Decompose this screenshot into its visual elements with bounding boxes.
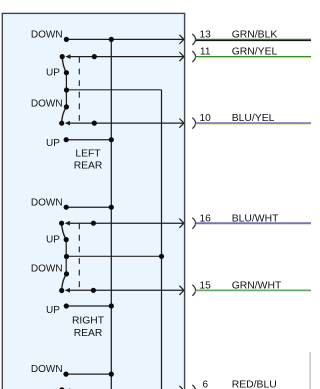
connector socket arc pin 15	[192, 285, 195, 296]
junction dot: right-rear wiper 1 wire x93	[91, 221, 96, 226]
wire: left-rear down contact row to pin 13	[66, 38, 183, 40]
pin 15 arrowhead at connector edge	[179, 286, 184, 295]
contact dot: right-rear wiper pivot 1	[59, 221, 64, 226]
wiper arrow right-rear 2	[65, 288, 70, 293]
svg-text:10: 10	[200, 113, 212, 124]
wire: right-rear middle link tap to bus B	[67, 255, 162, 257]
pin 13 arrowhead at connector edge	[179, 35, 184, 44]
connector socket arc pin 11	[192, 51, 195, 62]
wire: right-rear down contact 1 row to bus A	[66, 206, 111, 208]
wiper arrow left-rear 1	[65, 54, 70, 59]
svg-text:RED/BLU: RED/BLU	[232, 380, 277, 389]
svg-text:13: 13	[200, 30, 212, 41]
contact dot: left-rear DOWN 2	[64, 104, 69, 109]
connector socket arc pin 6 (partial)	[192, 385, 195, 389]
svg-text:DOWN: DOWN	[31, 197, 63, 208]
wire: right-rear middle contact link	[65, 240, 67, 274]
contact dot: right-rear UP 1	[64, 237, 69, 242]
wire GRN/BLK pin 13	[196, 39, 311, 40]
pin 16 arrowhead at connector edge	[179, 219, 184, 228]
svg-text:6: 6	[202, 380, 208, 389]
pin 11 arrowhead at connector edge	[179, 52, 184, 61]
junction dot: right-rear wiper 2 wire x93	[91, 288, 96, 293]
svg-text:16: 16	[200, 213, 212, 224]
wire: left-rear wiper 1 row to pin 11	[70, 56, 184, 58]
power window switch box	[2, 13, 184, 389]
contact dot: bottom wiper pivot (partial at edge)	[59, 387, 64, 389]
contact dot: right-rear DOWN 2	[64, 271, 69, 276]
svg-text:UP: UP	[46, 67, 60, 78]
svg-text:GRN/YEL: GRN/YEL	[232, 47, 278, 58]
svg-text:DOWN: DOWN	[31, 30, 63, 41]
wire GRN/YEL pin 11	[196, 57, 311, 58]
contact dot: right-rear UP 2	[64, 303, 69, 308]
wire: right-rear wiper 2 row to pin 15	[69, 289, 183, 291]
svg-text:UP: UP	[46, 305, 60, 316]
wire: bus A vertical	[110, 39, 112, 389]
pin 10 arrowhead at connector edge	[179, 119, 184, 128]
pin 6 arrowhead at connector edge (partial)	[179, 386, 184, 389]
svg-text:BLU/YEL: BLU/YEL	[232, 113, 275, 124]
junction dot: right-rear middle link tap	[64, 254, 69, 259]
svg-text:DOWN: DOWN	[31, 364, 63, 375]
connector socket arc pin 16	[192, 218, 195, 229]
wiper arrow bottom (partial at edge)	[65, 388, 70, 389]
junction dot: left-rear middle link tap	[64, 87, 69, 92]
contact dot: left-rear UP 1	[64, 70, 69, 75]
junction dot: wiper 2 wire x94	[92, 121, 97, 126]
wire: right-rear up contact 2 row to bus A	[66, 305, 111, 307]
wire: left-rear up contact 2 row to bus A	[66, 139, 111, 141]
junction dot: bus B at right-rear middle row	[159, 254, 164, 259]
wire: bus B vertical with corner at top	[161, 90, 163, 389]
contact dot: left-rear UP 2	[64, 137, 69, 142]
connector socket arc pin 13	[192, 34, 195, 45]
contact dot: left-rear DOWN 1	[64, 37, 69, 42]
wire: left-rear middle link tap to bus B	[67, 89, 162, 91]
svg-text:DOWN: DOWN	[31, 264, 63, 275]
wire: right-rear wiper 1 row to pin 16	[69, 222, 183, 224]
mechanical linkage dashed line, left-rear	[78, 57, 80, 123]
svg-text:DOWN: DOWN	[31, 98, 63, 109]
switch blade left-rear 2 (DOWN contact to wiper)	[62, 107, 67, 123]
contact dot: left-rear wiper pivot 2	[59, 121, 64, 126]
page border fragment bottom right	[309, 352, 311, 389]
junction dot: bus A at bottom DOWN row	[109, 372, 114, 377]
svg-text:REAR: REAR	[74, 328, 103, 339]
connector socket arc pin 10	[192, 118, 195, 129]
contact dot: left-rear wiper pivot 1	[60, 54, 65, 59]
switch blade left-rear 1 (wiper to UP contact)	[62, 57, 66, 73]
wire: bottom down contact row to bus A (cut off switch)	[66, 373, 111, 375]
junction dot: bus A at right-rear UP2 row	[109, 303, 114, 308]
contact dot: bottom DOWN	[63, 372, 68, 377]
wiper arrow left-rear 2	[65, 121, 70, 126]
svg-text:GRN/BLK: GRN/BLK	[232, 30, 278, 41]
junction dot: wiper 1 wire x94	[92, 54, 97, 59]
svg-text:15: 15	[200, 280, 212, 291]
svg-text:UP: UP	[46, 235, 60, 246]
svg-text:UP: UP	[46, 138, 60, 149]
wiper arrow right-rear 1	[65, 221, 70, 226]
wire BLU/WHT pin 16	[196, 223, 311, 224]
mechanical linkage dashed line, right-rear	[78, 223, 80, 290]
svg-text:11: 11	[200, 47, 211, 58]
wire GRN/WHT pin 15	[196, 290, 311, 291]
svg-text:GRN/WHT: GRN/WHT	[232, 280, 282, 291]
svg-text:BLU/WHT: BLU/WHT	[232, 213, 279, 224]
switch blade right-rear 2 (DOWN contact to wiper)	[62, 274, 67, 291]
wire: left-rear wiper 2 row to pin 10	[69, 122, 183, 124]
svg-text:LEFT: LEFT	[75, 148, 101, 159]
wire BLU/YEL pin 10	[196, 123, 311, 124]
contact dot: right-rear DOWN 1	[64, 205, 69, 210]
svg-text:REAR: REAR	[74, 160, 103, 171]
contact dot: right-rear wiper pivot 2	[59, 288, 64, 293]
switch blade right-rear 1 (wiper to UP contact)	[62, 223, 67, 239]
svg-text:RIGHT: RIGHT	[72, 315, 105, 326]
junction dot: bus A at left-rear UP2 row	[109, 137, 114, 142]
wire: left-rear middle contact link	[65, 73, 67, 107]
junction dot: bus A at pin13 row	[109, 37, 114, 42]
junction dot: bus A at right-rear DOWN1 row	[109, 205, 114, 210]
